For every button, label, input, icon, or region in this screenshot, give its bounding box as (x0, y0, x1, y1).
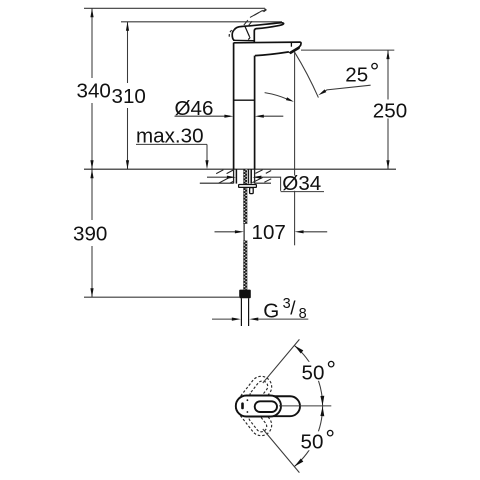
dimension line 390 (91, 169, 93, 220)
svg-text:/: / (290, 299, 296, 320)
dimension line 310 (127, 22, 129, 83)
deck top line (84, 168, 396, 170)
deck hole edge right (254, 169, 256, 183)
label 50deg upper (300, 362, 336, 381)
dimension line 340 (91, 8, 93, 78)
label D34 with arrows (207, 176, 227, 178)
arc arrowheads center (320, 396, 324, 406)
threaded rod lower (243, 240, 247, 289)
deck hatching left (216, 170, 233, 183)
raised knuckle dashed arc (229, 30, 231, 38)
spout underside (255, 52, 289, 56)
lever skirt line (233, 39, 254, 41)
angle arc upper (294, 346, 322, 407)
svg-text:50°: 50° (302, 357, 337, 385)
deck hatching right (252, 170, 271, 183)
arc arrowhead upper end (294, 346, 303, 354)
label G3/8 with arrows (212, 318, 232, 320)
knuckle tick (248, 37, 250, 39)
threaded shank left wall (235, 169, 237, 183)
knuckle crease (245, 26, 250, 37)
centerline (279, 405, 331, 407)
top view spout body (236, 396, 300, 416)
top view handle base (236, 396, 281, 417)
svg-text:25°: 25° (345, 59, 379, 87)
ray 50deg lower (263, 429, 300, 473)
dot upper (247, 399, 249, 401)
svg-text:340: 340 (77, 80, 111, 103)
rod line in dim gap (243, 224, 245, 240)
faucet body column (233, 43, 235, 170)
body top edge (234, 42, 301, 48)
deck bottom line left (200, 182, 234, 184)
shank right wall lines (248, 169, 250, 183)
dimension line 250 (387, 50, 389, 169)
body joint line (234, 99, 255, 101)
extension line 390 bottom (84, 296, 239, 298)
top view dashed handle upper (232, 372, 276, 421)
arc arrowhead lower end (294, 459, 303, 467)
deck hole edge left (233, 169, 235, 183)
svg-text:50°: 50° (301, 426, 336, 454)
supply nut (239, 290, 251, 299)
mounting washer (239, 185, 257, 188)
svg-text:310: 310 (112, 85, 146, 108)
raised lever dashes (244, 9, 267, 27)
angle arc lower (294, 406, 322, 467)
svg-text:250: 250 (373, 99, 407, 122)
extension line top 340 (84, 7, 265, 9)
threaded rod upper (243, 169, 247, 224)
dot lower (247, 411, 249, 413)
stream direction curved arrow (265, 93, 288, 100)
spout tip facet line (290, 42, 292, 47)
supply pipe (240, 298, 242, 326)
top view dashed handle lower (232, 391, 276, 440)
svg-text:390: 390 (73, 223, 107, 246)
svg-text:107: 107 (252, 221, 286, 244)
label 50deg lower (299, 431, 336, 450)
spout tip extension line (294, 53, 296, 176)
aerator wedge (289, 45, 301, 54)
top view handle grip (255, 401, 277, 412)
svg-text:8: 8 (299, 306, 307, 322)
ray 50deg upper (263, 339, 300, 383)
hose fitting block (250, 188, 254, 194)
water stream line 25deg (294, 52, 318, 98)
lever handle outline (234, 23, 283, 43)
dimension 107 (215, 231, 236, 233)
temperature slot (241, 402, 244, 409)
extension line 250 (301, 49, 394, 51)
svg-text:G: G (263, 300, 279, 323)
extension line top 310 (121, 21, 282, 23)
deck bottom line right (255, 182, 271, 184)
lever knuckle left edge (232, 30, 234, 40)
